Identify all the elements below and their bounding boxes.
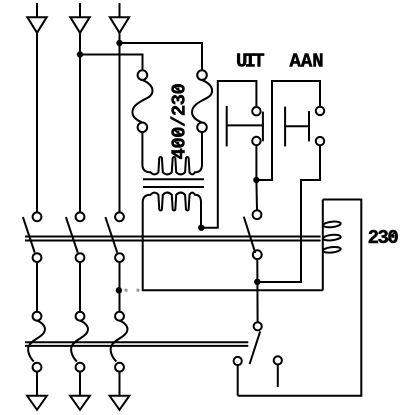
svg-text:AAN: AAN [290, 51, 324, 73]
relay coil K1 230V [323, 200, 341, 291]
fuse left (primary fuse) [132, 70, 152, 132]
wire L2 contactor to isolator [79, 262, 81, 312]
load arrow L1 [27, 396, 47, 410]
faint remnant wire marks [125, 289, 128, 292]
node aux-AAN-changeover junction [254, 279, 260, 285]
mechanical linkage upper (contactor) [25, 237, 321, 241]
wire UIT bottom to node [255, 145, 257, 180]
label 400/230 (transformer ratio, rotated) [168, 84, 190, 160]
wire tap L2 to left fuse [80, 55, 143, 71]
transformer T1 secondary winding [143, 193, 201, 211]
contactor K1 main contact L2 [66, 212, 85, 262]
contactor K1 main contact L3 [105, 212, 124, 262]
wire AAN feed riser [256, 81, 320, 180]
wire fuse right to primary [201, 132, 203, 164]
wire L3 vertical [119, 33, 121, 213]
wire L2 isolator to load arrow [79, 372, 81, 396]
contactor K1 main contact L1 [23, 212, 41, 262]
wire junction to aux contact [255, 180, 258, 210]
node L2 tap [77, 51, 83, 57]
wire L1 vertical [36, 33, 38, 213]
load arrow L2 [70, 396, 90, 410]
wire coil return to secondary left [143, 203, 323, 291]
transformer T1 core [143, 179, 204, 187]
svg-text:230: 230 [368, 227, 399, 249]
isolator Q1 pole L3 [111, 312, 128, 372]
supply arrow L2 [70, 3, 89, 33]
isolator Q1 pole L2 [71, 312, 88, 372]
node secondary-right / control feed [198, 225, 204, 231]
transformer T1 primary winding [142, 157, 202, 174]
supply arrow L1 [27, 3, 46, 33]
node UIT-AAN junction [253, 177, 259, 183]
pushbutton UIT (NC stop) [227, 106, 263, 146]
changeover aux contact of isolator [234, 322, 282, 387]
wire changeover to bottom rail [237, 365, 239, 396]
pushbutton AAN (NO start) [285, 107, 324, 147]
contact K1 aux (holding) [244, 210, 262, 259]
wire L1 contactor to isolator [36, 262, 38, 312]
mechanical linkage lower (isolator) [25, 342, 248, 346]
wire control feed riser to UIT [201, 81, 256, 228]
wire L2 vertical [79, 33, 81, 213]
wire secondary right to node [200, 203, 202, 228]
supply arrow L3 [110, 3, 129, 33]
wire L3 isolator to load arrow [119, 372, 121, 396]
node L3 lower [116, 287, 122, 293]
node L3 tap [116, 40, 122, 46]
svg-text:UIT: UIT [236, 51, 264, 73]
fuse right (primary fuse) [192, 70, 212, 132]
wire L1 isolator to load arrow [36, 372, 38, 396]
load arrow L3 [110, 396, 130, 410]
wire L3 contactor to isolator [119, 262, 121, 312]
slash of 0 in 230 [387, 233, 394, 241]
svg-text:400/230: 400/230 [168, 84, 190, 160]
wire AAN bottom to parallel riser [257, 145, 320, 282]
wire bottom rail [238, 200, 362, 396]
wire fuse left to primary [141, 132, 143, 164]
wire tap L3 to right fuse [120, 43, 203, 70]
isolator Q1 pole L1 [28, 312, 45, 372]
wire aux bottom through node to changeover [256, 259, 258, 322]
